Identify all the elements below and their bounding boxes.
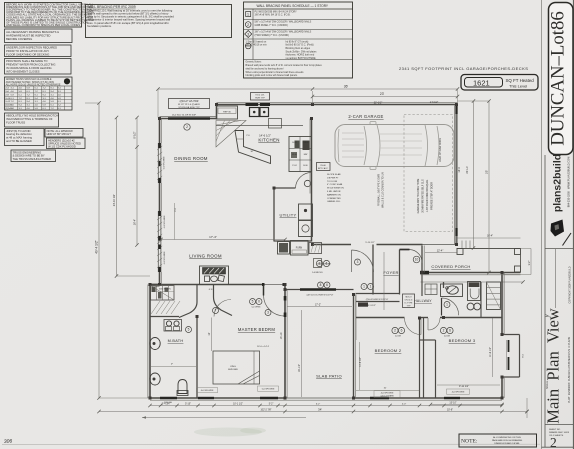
- wall: m.bath/master divider: [196, 317, 198, 399]
- svg-text:OVEN: OVEN: [303, 142, 309, 144]
- svg-text:5: 5: [252, 300, 254, 304]
- title block left border line: [541, 0, 543, 449]
- box: niche at hall: [425, 284, 437, 295]
- svg-text:blocking joists and in-line w/: blocking joists and in-line w/b braced w…: [246, 74, 298, 77]
- wall: master suite left wall: [149, 284, 151, 399]
- dim: porch 12-4: [425, 252, 457, 254]
- header at porch wall (black): [420, 271, 429, 274]
- bath2 tub: [468, 282, 481, 301]
- svg-text:FLOOR TRUSS: FLOOR TRUSS: [6, 121, 25, 125]
- circles pair bedroom2: [392, 327, 398, 333]
- door: garage to hall: [352, 250, 374, 272]
- svg-text:3: 3: [267, 311, 269, 315]
- svg-text:1: 1: [363, 285, 365, 289]
- svg-text:and TO BE ALIGNED: and TO BE ALIGNED: [6, 139, 32, 143]
- svg-text:11'-6 1/2": 11'-6 1/2": [360, 357, 362, 367]
- svg-text:3: 3: [247, 32, 249, 36]
- svg-text:36": 36": [250, 151, 253, 153]
- svg-text:COMPACTED: COMPACTED: [327, 197, 341, 200]
- svg-text:KITCHEN: KITCHEN: [258, 138, 279, 143]
- middle cell divider: [555, 249, 557, 309]
- svg-text:2-6 DR: 2-6 DR: [395, 336, 402, 338]
- note box: framing brackets: [5, 29, 73, 43]
- svg-text:10'-1 1/2": 10'-1 1/2": [233, 403, 243, 405]
- svg-text:6 MIL VAPOR: 6 MIL VAPOR: [327, 190, 341, 193]
- fireplace / media wall living room: [200, 266, 229, 285]
- svg-text:22'-1/2": 22'-1/2": [374, 102, 383, 105]
- m.bath shower/closet: [151, 286, 175, 301]
- svg-text:16'-0 x 14'-2: 16'-0 x 14'-2: [257, 346, 270, 348]
- svg-text:PROVISION SHALL BE MADE TO: PROVISION SHALL BE MADE TO: [6, 59, 47, 63]
- wall: porch right edge: [520, 249, 522, 273]
- dim: bedroom2 vertical: [359, 342, 361, 390]
- svg-text:W 1/2 CDX PLYWOOD: W 1/2 CDX PLYWOOD: [48, 145, 76, 149]
- svg-text:15'-10": 15'-10": [449, 402, 456, 404]
- svg-text:1: 1: [370, 285, 372, 289]
- svg-text:HALLWAY: HALLWAY: [414, 299, 432, 303]
- patio leader: [301, 310, 303, 397]
- svg-text:BEDROOM 2: BEDROOM 2: [375, 348, 402, 353]
- svg-text:GRAVEL FILL: GRAVEL FILL: [327, 200, 341, 203]
- header callout over dining: [169, 99, 210, 109]
- table: wall bracing panel schedule: [244, 2, 353, 78]
- note box: no boring/notching floor truss: [5, 113, 59, 127]
- svg-text:14'-6 1/2": 14'-6 1/2": [259, 134, 271, 138]
- svg-text:20'-1/2: 20'-1/2: [466, 166, 469, 174]
- svg-text:INTO BASEMENT CLOSES: INTO BASEMENT CLOSES: [6, 69, 40, 73]
- svg-text:WALLS & CLG COMMON TO LIV: WALLS & CLG COMMON TO LIV: [382, 172, 385, 208]
- svg-text:ING/OVERCUTTING & TRIMMING OF: ING/OVERCUTTING & TRIMMING OF: [6, 117, 53, 121]
- svg-text:5-0 OPNG: 5-0 OPNG: [252, 307, 261, 309]
- kitchen dishwasher: [269, 119, 282, 129]
- kitchen corner pantry shelves: [216, 121, 246, 148]
- svg-text:306: 306: [4, 438, 13, 445]
- window header over dining (black): [168, 117, 210, 119]
- svg-text:2: 2: [443, 329, 445, 333]
- svg-text:34': 34': [318, 407, 322, 411]
- wall: hallway south with door openings: [356, 317, 405, 319]
- svg-text:AND SHALL CONFORM TO SPECS AS: AND SHALL CONFORM TO SPECS AS PER LOCAL …: [6, 23, 80, 27]
- circles pair hall south: [361, 284, 367, 290]
- svg-text:2: 2: [394, 329, 396, 333]
- svg-text:12'-4": 12'-4": [437, 249, 444, 253]
- svg-text:SLAB PATIO: SLAB PATIO: [316, 374, 342, 379]
- svg-text:16-0 SLD GL DR W SUP: 16-0 SLD GL DR W SUP: [172, 115, 197, 117]
- svg-text:49'-4 1/2": 49'-4 1/2": [95, 240, 99, 253]
- svg-text:DIMENSION AND DETAIL: DIMENSION AND DETAIL: [494, 442, 520, 445]
- window labels bottom (boxed): [197, 388, 218, 393]
- door: bath2: [441, 298, 443, 316]
- svg-text:foundation positions.: foundation positions.: [87, 24, 112, 28]
- svg-text:HDR AT 80" MIN HT: HDR AT 80" MIN HT: [47, 132, 72, 136]
- svg-text:0: 0: [258, 300, 260, 304]
- svg-text:PLOT 10/13/2009 DUNCAN LOT 8: PLOT 10/13/2009 DUNCAN LOT 86 MAIN.PLN C…: [568, 337, 571, 403]
- svg-text:864-235-5205 WWW.PLANS2BUILD: 864-235-5205 WWW.PLANS2BUILD.COM: [567, 157, 571, 208]
- svg-text:4-0 SFG WIN: 4-0 SFG WIN: [164, 251, 166, 264]
- header callout kitchen: [251, 93, 270, 101]
- note box: window note B: [47, 138, 86, 149]
- logo slash: [563, 233, 572, 246]
- svg-text:25': 25': [485, 170, 489, 174]
- note box: water provision: [5, 59, 72, 75]
- bay windows glazing (black): [508, 340, 510, 352]
- table: header/girder span table: [5, 77, 73, 110]
- dim: bedroom3 vertical: [492, 318, 494, 377]
- garage car: [335, 125, 454, 167]
- wall: garage back wall: [313, 244, 352, 246]
- svg-text:16'-4": 16'-4": [134, 219, 137, 225]
- linen closet: [487, 282, 501, 310]
- svg-text:WALL BRACING PER IRC 2009: WALL BRACING PER IRC 2009: [87, 5, 136, 9]
- m.bath vanity w/ sinks: [164, 320, 182, 332]
- svg-text:SD/CO: SD/CO: [405, 297, 412, 299]
- porch posts: [457, 249, 463, 255]
- wall: living/master divider: [149, 284, 262, 286]
- svg-text:8: 8: [319, 262, 321, 266]
- dim: bottom chain 2: [99, 411, 527, 413]
- window: living left: [157, 211, 159, 272]
- corner ink blobs: [158, 117, 161, 120]
- svg-text:6: 6: [326, 262, 328, 266]
- svg-text:102'-2 7/8": 102'-2 7/8": [261, 409, 272, 411]
- svg-text:5'-2": 5'-2": [269, 403, 274, 405]
- svg-text:9'-2": 9'-2": [529, 261, 531, 266]
- wall: dining front (top) wall: [160, 118, 217, 120]
- scan smudge (green): [194, 428, 262, 437]
- svg-text:DINING ROOM: DINING ROOM: [174, 156, 208, 161]
- svg-text:9'-11 1/2": 9'-11 1/2": [459, 385, 469, 388]
- water heater circle: [304, 180, 310, 186]
- svg-text:16'x8' OH GAR DOOR: 16'x8' OH GAR DOOR: [439, 138, 442, 162]
- svg-text:HDR TYP: HDR TYP: [255, 98, 265, 100]
- svg-text:5-0 SFG WIN: 5-0 SFG WIN: [164, 156, 166, 169]
- svg-text:TYP: TYP: [407, 305, 412, 307]
- svg-text:SQ FT Heated: SQ FT Heated: [506, 78, 535, 83]
- svg-text:4'-0": 4'-0": [402, 403, 407, 405]
- svg-text:GARAGE DRS TO LIVING TO BE: GARAGE DRS TO LIVING TO BE: [417, 178, 420, 213]
- door: utility: [296, 173, 312, 189]
- svg-text:2: 2: [186, 125, 188, 129]
- svg-text:GWB PANEL 7" D.C: GWB PANEL 7" D.C. (UNODD): [255, 24, 288, 27]
- wall: utility bottom: [274, 240, 312, 242]
- note box: window note A: [45, 129, 83, 138]
- wall: central vertical master/patio: [284, 284, 286, 398]
- svg-text:4-0 SFG WIN: 4-0 SFG WIN: [164, 215, 166, 228]
- svg-text:SHEET NO: SHEET NO: [549, 429, 560, 431]
- svg-text:FOYER: FOYER: [383, 270, 398, 275]
- svg-text:3/8"x4'x8' MI: 3/8"x4'x8' MIN. B4 16' D.C. 8'O.B.: [255, 14, 291, 17]
- dim: left 24ft: [116, 118, 118, 277]
- svg-text:2-CAR GARAGE: 2-CAR GARAGE: [348, 114, 383, 119]
- master bed: [213, 351, 260, 384]
- svg-text:WALL BRACING PANEL SCHEDULE: WALL BRACING PANEL SCHEDULE — 1 STORY: [257, 4, 329, 8]
- logo mark: black house/flag icon: [551, 220, 565, 237]
- svg-text:8'-1/2": 8'-1/2": [134, 131, 137, 138]
- svg-text:MW: MW: [304, 154, 308, 156]
- wall: front wall at porch/foyer: [421, 272, 521, 274]
- box: smoke detector hallway: [403, 294, 415, 308]
- dim: garage 23ft: [313, 96, 458, 98]
- note box: dimensions note: [459, 434, 537, 447]
- wall: left wall dining/living with windows: [159, 118, 161, 144]
- wall: kitchen front wall (raised): [217, 104, 313, 106]
- dim: m.bath 7ft: [151, 366, 196, 368]
- svg-text:17'-2": 17'-2": [315, 303, 321, 306]
- svg-text:6: 6: [401, 329, 403, 333]
- svg-text:FURN: FURN: [296, 248, 303, 250]
- svg-text:ALL HDRS (2)2x10 UNLESS NOTED: ALL HDRS (2)2x10 UNLESS NOTED OTHERWISE: [6, 84, 61, 87]
- svg-text:SCALE: SCALE: [546, 381, 549, 389]
- svg-text:6: 6: [326, 283, 328, 287]
- svg-text:DUNCAN–Lot86: DUNCAN–Lot86: [548, 11, 569, 146]
- svg-text:COVERED PORCH: COVERED PORCH: [431, 264, 470, 269]
- svg-text:24'-10 1/2": 24'-10 1/2": [112, 194, 116, 206]
- wall: garage right wall: [455, 105, 457, 246]
- svg-text:vs partition BOTH/OUTSIDE: vs partition BOTH/OUTSIDE: [286, 57, 317, 60]
- svg-text:TO DOOR: TO DOOR: [327, 181, 338, 183]
- svg-text:16'-4": 16'-4": [487, 235, 493, 238]
- dim: patio width: [287, 306, 352, 308]
- wall: jog at master suite: [149, 284, 161, 286]
- wall: foyer right/closet: [399, 250, 401, 295]
- wall: kitchen/garage shared: [311, 119, 313, 242]
- svg-text:3: 3: [357, 260, 359, 264]
- svg-text:ABSOLUTELY NO HOLE BORING/NOTC: ABSOLUTELY NO HOLE BORING/NOTCH-: [6, 114, 59, 118]
- m.bath toilet: [178, 380, 187, 394]
- svg-text:8: 8: [320, 283, 322, 287]
- svg-text:6: 6: [449, 329, 451, 333]
- svg-text:ALL NECESSARY FRAMING BRACKETS: ALL NECESSARY FRAMING BRACKETS &: [6, 30, 59, 34]
- divider under logo: [545, 248, 573, 250]
- svg-text:2: 2: [247, 23, 249, 27]
- wall: m.bath top divider: [150, 316, 179, 318]
- svg-text:5'-10 1/2": 5'-10 1/2": [365, 242, 374, 244]
- svg-text:10': 10': [208, 332, 211, 336]
- svg-text:4" CONC SLAB: 4" CONC SLAB: [327, 183, 343, 186]
- garage attic access: [317, 163, 331, 171]
- project name box: DUNCAN-Lot86: [549, 3, 574, 155]
- divider above sheet number: [545, 424, 573, 426]
- svg-text:STUDS EA SIDE TYP: STUDS EA SIDE TYP: [178, 106, 200, 109]
- svg-text:16'-1/2": 16'-1/2": [298, 364, 301, 372]
- svg-text:PAGE ARE ROUGH FRAMING: PAGE ARE ROUGH FRAMING: [492, 439, 523, 442]
- wall: bed2/bed3 divider double: [419, 318, 421, 398]
- svg-text:9 1/2 LVL: 9 1/2 LVL: [255, 95, 265, 97]
- svg-text:LIVING ROOM: LIVING ROOM: [189, 254, 222, 259]
- rear wall window headers (black): [160, 397, 177, 399]
- svg-text:7: 7: [215, 309, 217, 313]
- door: living to master hall leaf: [263, 285, 265, 296]
- svg-text:1-3/8 SOLID CORE OR EQUAL: 1-3/8 SOLID CORE OR EQUAL: [426, 179, 429, 212]
- circles pair bedroom3: [440, 327, 446, 333]
- svg-text:18'-0: 18'-0: [458, 167, 461, 173]
- svg-text:PROVIDE STEP AT DOOR: PROVIDE STEP AT DOOR: [431, 182, 434, 210]
- svg-text:SIZE BED: SIZE BED: [228, 369, 238, 371]
- note box: truss engineering: [11, 150, 56, 162]
- svg-text:FIREWALL: 5/8 TYPE X GWB: FIREWALL: 5/8 TYPE X GWB: [378, 174, 381, 206]
- svg-text:6'-2": 6'-2": [316, 403, 321, 405]
- svg-text:1621: 1621: [473, 78, 490, 87]
- wall: utility left: [273, 188, 275, 242]
- door: bedroom 3: [428, 318, 440, 330]
- wall: tub/linen divider: [480, 282, 482, 318]
- svg-text:FLOOR SHEATHING OR DECKING: FLOOR SHEATHING OR DECKING: [6, 53, 49, 57]
- dim: living room 17-4: [161, 239, 285, 241]
- svg-text:13'-10: 13'-10: [280, 332, 283, 339]
- dim: overall top 36ft: [158, 88, 458, 90]
- svg-text:SLOPE SLAB: SLOPE SLAB: [327, 173, 341, 176]
- wall: bath2 left: [443, 282, 445, 288]
- wall: bedroom wing left: [353, 295, 355, 399]
- master entry curved walls: [179, 285, 197, 318]
- svg-text:2-6 DR: 2-6 DR: [444, 336, 451, 338]
- svg-text:MASTER BEDRM: MASTER BEDRM: [238, 327, 276, 332]
- bath2 vanity: [441, 284, 463, 297]
- wall: foyer/porch divider: [421, 246, 423, 273]
- porch steps: [461, 241, 463, 249]
- wall: garage front (top) wall: [313, 104, 458, 106]
- svg-text:Main Plan View: Main Plan View: [544, 308, 563, 423]
- svg-text:36': 36': [344, 85, 349, 89]
- dim inside living: [174, 203, 176, 240]
- svg-text:THE TRUSS MANUFACTURER: THE TRUSS MANUFACTURER: [13, 157, 51, 161]
- svg-text:BEDROOM 3: BEDROOM 3: [449, 338, 476, 343]
- svg-text:(2)9 1/2 LVL HDR W 1/2 PLY: (2)9 1/2 LVL HDR W 1/2 PLY: [307, 295, 334, 297]
- svg-text:10'-6": 10'-6": [447, 408, 453, 411]
- wall: hallway north band: [356, 293, 400, 295]
- wall: utility top + door: [274, 187, 296, 189]
- m.bath shower hatch: [151, 301, 160, 314]
- door: front entry leaf+arc: [400, 249, 410, 251]
- circled marks misc: [316, 260, 322, 266]
- svg-text:22x30: 22x30: [320, 165, 326, 167]
- dark vent box hallway: [358, 303, 368, 307]
- svg-text:5'-3 1/2": 5'-3 1/2": [368, 305, 376, 307]
- boxed window label at jog: [156, 286, 175, 291]
- svg-text:HARDWARE MUST BE INSPECTED: HARDWARE MUST BE INSPECTED: [6, 33, 50, 37]
- svg-text:1/8"x2' 40/16 or min: 1/8"x2' 40/16 or min: [246, 44, 268, 47]
- m.bath wall basin 1: [150, 338, 160, 350]
- svg-text:3050 SH: 3050 SH: [164, 402, 172, 404]
- svg-text:KING: KING: [230, 366, 236, 368]
- svg-text:IN CRAWLSPACE & FROM LEAKING: IN CRAWLSPACE & FROM LEAKING: [6, 66, 52, 70]
- dim: left overall 49ft: [98, 103, 100, 398]
- dim: right verticals: [473, 101, 475, 248]
- svg-text:5-0 SFG WIN: 5-0 SFG WIN: [262, 389, 275, 391]
- svg-text:3050 SH WIN: 3050 SH WIN: [159, 289, 171, 291]
- svg-text:1'-6 1/2": 1'-6 1/2": [430, 102, 439, 104]
- wall: rear hall south (w/ header): [285, 289, 354, 291]
- svg-text:PRIOR TO INSTALLATION OF ANY: PRIOR TO INSTALLATION OF ANY: [6, 49, 49, 53]
- svg-text:COPYRIGHT 2009 PLANS2BUILD: COPYRIGHT 2009 PLANS2BUILD: [569, 266, 572, 303]
- step between dining and kitchen walls: [216, 104, 218, 120]
- svg-text:ALL DIMENSIONS ON THIS: ALL DIMENSIONS ON THIS: [493, 436, 521, 439]
- svg-text:PREVENT WATER FROM COLLECTING: PREVENT WATER FROM COLLECTING: [6, 63, 55, 67]
- dim: above porch: [458, 237, 521, 239]
- kitchen counter edge: [216, 125, 303, 127]
- svg-text:10: 10: [415, 258, 419, 262]
- bath2 toilet: [467, 303, 474, 310]
- door: bedroom 2: [405, 318, 422, 335]
- svg-text:4-0x1-6 TRANS: 4-0x1-6 TRANS: [380, 394, 394, 397]
- dim: right bottom vertical: [526, 398, 528, 418]
- svg-text:1: 1: [446, 303, 448, 307]
- svg-text:M.BATH: M.BATH: [168, 339, 184, 343]
- svg-text:IC TYPE: IC TYPE: [405, 303, 413, 305]
- svg-text:ON CLG: ON CLG: [405, 300, 413, 302]
- svg-text:20 MIN FIRE RATED SELF CLG: 20 MIN FIRE RATED SELF CLG: [422, 179, 425, 212]
- window: dining left: [157, 143, 159, 183]
- svg-text:(TWO SIDED) 7" D.: (TWO SIDED) 7" D.C. (UNODD): [255, 34, 290, 37]
- note box: joist bearing: [5, 129, 45, 146]
- dim: left inner: [136, 118, 138, 246]
- dim: bedroom2 bottom: [356, 390, 420, 392]
- svg-text:UTILITY: UTILITY: [280, 213, 297, 218]
- wall: rear (bottom) wall: [150, 397, 285, 399]
- kitchen sink: [250, 108, 260, 117]
- svg-text:(2)2x12 HDR W 1/2 PLY: (2)2x12 HDR W 1/2 PLY: [366, 299, 389, 301]
- svg-text:UNDERFLOOR INSPECTION REQUIRED: UNDERFLOOR INSPECTION REQUIRED: [6, 46, 57, 50]
- kitchen fridge: [217, 106, 238, 119]
- wall face lines (double wall look): [160, 115, 217, 117]
- svg-text:BARRIER ON: BARRIER ON: [327, 193, 341, 196]
- svg-text:W 6x6 WWM ON: W 6x6 WWM ON: [327, 188, 344, 190]
- dim: bottom chain 3: [142, 417, 306, 419]
- door: master bedroom: [214, 300, 231, 317]
- note box: general plan notes (top-left dense): [5, 3, 82, 28]
- kitchen island angled: [235, 131, 271, 164]
- svg-text:11'-6 1/2": 11'-6 1/2": [489, 347, 492, 357]
- svg-text:NOTE:: NOTE:: [461, 439, 478, 445]
- m.bath wall basin 2: [150, 373, 160, 385]
- wall: foyer left: [372, 245, 374, 295]
- svg-text:17'-4": 17'-4": [209, 235, 217, 239]
- svg-text:2: 2: [66, 80, 68, 84]
- wall: right side below bay: [501, 377, 503, 399]
- svg-text:REF 36: REF 36: [223, 111, 231, 113]
- svg-text:5: 5: [188, 328, 190, 332]
- svg-text:This Level: This Level: [509, 83, 527, 88]
- svg-text:ATTIC ACC: ATTIC ACC: [318, 167, 328, 170]
- svg-text:plans2build: plans2build: [552, 154, 564, 212]
- note box: wall bracing per IRC: [86, 5, 232, 38]
- svg-text:2341 SQFT FOOTPRINT INCL GARAG: 2341 SQFT FOOTPRINT INCL GARAGE/PORCHES-…: [399, 66, 528, 71]
- garage door dashed area: [404, 115, 453, 232]
- svg-text:(2)9 1/2" LVL HDR: (2)9 1/2" LVL HDR: [180, 101, 199, 103]
- svg-text:4-0 SFG WIN: 4-0 SFG WIN: [201, 390, 214, 392]
- dim: master interior: [211, 318, 213, 352]
- svg-text:5-0 BIFOLD: 5-0 BIFOLD: [312, 272, 323, 274]
- svg-text:4-0 SFG WIN: 4-0 SFG WIN: [452, 392, 465, 394]
- wall: right side wall above bay: [501, 273, 503, 336]
- bay window at bedroom 3: [502, 334, 520, 336]
- svg-text:4-0 SFG WIN: 4-0 SFG WIN: [381, 393, 394, 395]
- hall furnace closet: [278, 242, 290, 255]
- svg-text:5'-10": 5'-10": [185, 403, 191, 405]
- utility washer/dryer: [299, 204, 313, 220]
- circled 2 at dining: [184, 124, 190, 130]
- note box: underfloor inspection: [5, 45, 72, 57]
- window header over kitchen sink (black): [246, 103, 259, 106]
- porch step line: [421, 281, 524, 283]
- svg-text:23': 23': [380, 92, 385, 96]
- callout box: 1621 sq ft heated this level: [461, 75, 538, 91]
- kitchen tall cabinets: [289, 137, 312, 172]
- svg-text:W 1/2" PLY & (2)JACK: W 1/2" PLY & (2)JACK: [178, 103, 201, 106]
- wall: porch front edge: [457, 248, 521, 250]
- svg-text:BEFORE COVERING: BEFORE COVERING: [6, 37, 32, 41]
- svg-text:1: 1: [247, 13, 249, 17]
